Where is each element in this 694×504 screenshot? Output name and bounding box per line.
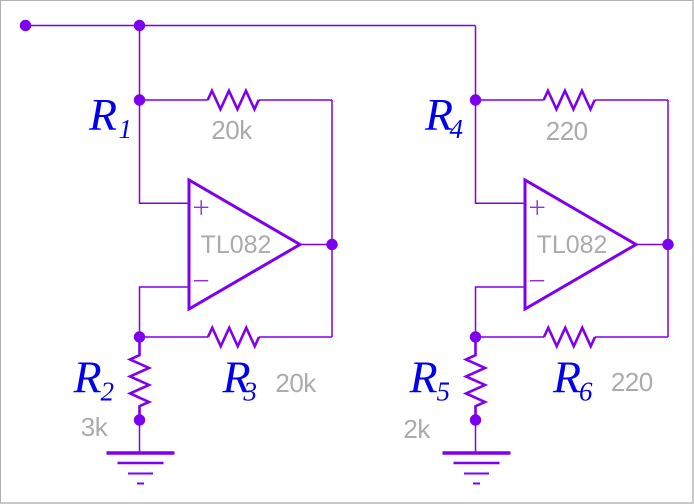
svg-text:2: 2 xyxy=(101,377,115,407)
svg-text:3k: 3k xyxy=(81,412,109,442)
wire U1 output xyxy=(300,244,332,246)
svg-text:1: 1 xyxy=(119,114,133,144)
wire node to R1 xyxy=(140,99,208,101)
pin - U1 xyxy=(194,280,208,282)
node input terminal xyxy=(20,20,31,31)
resistor R1 feedback 20k xyxy=(208,91,259,110)
node R5 top xyxy=(470,331,481,342)
resistor R6 220 xyxy=(544,328,595,347)
resistor R2 3k vertical xyxy=(130,337,149,420)
wire to ground left xyxy=(139,420,141,453)
resistor R3 20k xyxy=(208,328,259,347)
wire node to R6 xyxy=(476,336,545,338)
svg-text:TL082: TL082 xyxy=(537,231,608,259)
wire R1 to right vertical xyxy=(259,99,332,101)
svg-text:TL082: TL082 xyxy=(201,231,272,259)
op-amp U1 TL082 xyxy=(189,180,300,309)
svg-text:5: 5 xyxy=(437,377,451,407)
svg-text:4: 4 xyxy=(450,114,464,144)
wire R3 to right vertical xyxy=(259,336,332,338)
node R1 junction xyxy=(134,94,145,105)
wire U1 inverting input xyxy=(140,287,190,337)
wire U2 inverting input xyxy=(476,287,526,337)
wire R6 to right vertical xyxy=(595,336,668,338)
pin + U1 xyxy=(194,200,208,215)
wire right vertical (feedback bus U1) xyxy=(331,100,333,337)
wire top rail xyxy=(26,25,476,27)
pin - U2 xyxy=(530,280,544,282)
wire left vertical to noninverting input U1 xyxy=(140,26,190,204)
svg-text:220: 220 xyxy=(546,116,588,146)
wire right vertical (feedback bus U2) xyxy=(667,100,669,337)
wire to ground right xyxy=(475,420,477,453)
svg-text:6: 6 xyxy=(579,377,593,407)
svg-text:3: 3 xyxy=(243,377,258,407)
svg-text:20k: 20k xyxy=(275,368,317,398)
wire node to R4 xyxy=(476,99,544,101)
svg-text:R: R xyxy=(409,352,438,403)
wire U2 output xyxy=(636,244,668,246)
resistor R4 feedback 220 xyxy=(544,91,595,110)
wire node to R3 xyxy=(140,336,209,338)
node U2 output xyxy=(662,239,673,250)
op-amp U2 TL082 xyxy=(525,180,636,309)
svg-text:R: R xyxy=(73,352,102,403)
svg-text:2k: 2k xyxy=(403,414,431,444)
node R2 bottom xyxy=(134,414,145,425)
ground left xyxy=(107,453,175,484)
pin + U2 xyxy=(530,200,544,215)
wire R4 to right vertical xyxy=(595,99,668,101)
ground right xyxy=(443,453,511,484)
node U1 output xyxy=(326,239,337,250)
svg-text:R: R xyxy=(552,352,581,403)
node top junction xyxy=(134,20,145,31)
node R5 bottom xyxy=(470,414,481,425)
svg-text:220: 220 xyxy=(611,367,653,397)
svg-text:R: R xyxy=(88,89,117,140)
node R2 top xyxy=(134,331,145,342)
resistor R5 2k vertical xyxy=(466,337,485,420)
node R4 junction xyxy=(470,94,481,105)
wire right circuit vertical to noninverting input U2 xyxy=(476,26,526,204)
svg-text:20k: 20k xyxy=(211,115,253,145)
